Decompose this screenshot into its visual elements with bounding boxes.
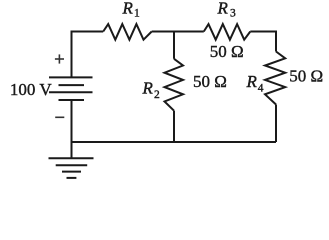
label 50 ohm (R3 value) [210,42,244,61]
svg-text:4: 4 [258,83,264,95]
battery V1 (100 V source) [49,77,93,100]
svg-text:2: 2 [154,89,160,101]
ground [49,158,94,178]
svg-text:100 V: 100 V [10,80,52,99]
wire middle-bottom (R2 to bottom wire) [173,111,175,142]
label 100 V [10,80,52,99]
label 50 ohm (R4 value) [289,66,323,85]
wire bottom [72,141,277,143]
label R1 [122,0,141,20]
wire top-left (battery + to R1) [72,32,104,77]
svg-text:R: R [246,72,258,91]
label R4 [246,72,264,95]
label R2 [142,79,161,102]
wire right (R4 to bottom corner) [275,105,277,143]
wire left-bottom (battery - down through bottom wire to ground) [71,100,73,158]
resistor R2 [165,59,184,111]
label R3 [217,0,237,20]
svg-text:R: R [142,79,154,98]
minus polarity mark [55,116,64,118]
wire top-right (R3 to right corner) [250,32,276,52]
wire middle-top (node A junction to R2) [173,32,175,59]
svg-text:50 Ω: 50 Ω [289,66,323,85]
resistor R1 [103,24,152,40]
plus polarity mark [55,54,64,63]
wire top-middle (R1 to R3, through node A) [152,31,204,33]
svg-text:3: 3 [230,8,236,20]
svg-text:50 Ω: 50 Ω [193,72,227,91]
svg-text:R: R [122,0,134,17]
svg-text:1: 1 [134,8,140,20]
label 50 ohm (R2 value) [193,72,227,91]
svg-text:50 Ω: 50 Ω [210,42,244,61]
resistor R3 [204,24,251,40]
resistor R4 [265,52,285,105]
svg-text:R: R [217,0,229,17]
